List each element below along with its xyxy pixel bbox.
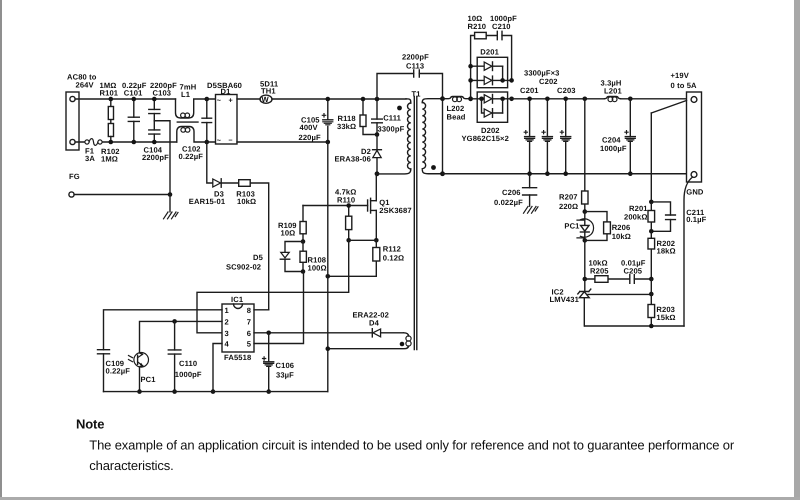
- node C101 top: [132, 97, 137, 102]
- svg-text:The example of an application: The example of an application circuit is…: [89, 438, 735, 453]
- output connector J2: [671, 71, 704, 197]
- svg-text:C201: C201: [520, 86, 539, 95]
- svg-text:FG: FG: [69, 172, 80, 181]
- svg-text:2200pF: 2200pF: [402, 53, 429, 62]
- node C204 bottom: [628, 171, 633, 176]
- node divider / C205: [649, 277, 654, 282]
- svg-text:C103: C103: [153, 89, 172, 98]
- capacitor C105: [299, 99, 333, 142]
- wire +19V output rail: [508, 98, 687, 100]
- svg-text:10kΩ: 10kΩ: [612, 232, 631, 241]
- wire C113 right leg down to secondary ground: [442, 99, 444, 174]
- svg-text:Bead: Bead: [447, 113, 466, 122]
- optocoupler PC1 transistor side: [129, 353, 157, 392]
- node C110 top: [172, 319, 177, 324]
- node R101 top: [109, 97, 114, 102]
- node pin6 / C106: [266, 331, 271, 336]
- wire bridge + output to TH1: [237, 98, 260, 100]
- svg-text:10Ω: 10Ω: [281, 229, 296, 238]
- svg-text:100Ω: 100Ω: [308, 264, 327, 273]
- node C203 top: [563, 97, 568, 102]
- svg-text:2SK3687: 2SK3687: [379, 206, 412, 215]
- node D202 cathode: [500, 97, 505, 102]
- wire PC1 to R205 node to IC2: [584, 240, 586, 291]
- node snubber bottom: [509, 78, 514, 83]
- node R201 bottom: [649, 229, 654, 234]
- node D201 cathode: [500, 78, 505, 83]
- svg-text:Note: Note: [76, 417, 104, 432]
- svg-text:1MΩ: 1MΩ: [101, 155, 118, 164]
- node R108 bottom: [301, 269, 306, 274]
- resistor R110: [335, 188, 356, 241]
- transistor Q1 2SK3687: [368, 174, 412, 241]
- capacitor C106: [263, 333, 295, 392]
- resistor R103: [236, 180, 268, 310]
- svg-text:YG862C15×2: YG862C15×2: [462, 134, 509, 143]
- resistor R118: [337, 99, 377, 135]
- node C106 bottom: [266, 389, 271, 394]
- svg-text:characteristics.: characteristics.: [89, 458, 173, 473]
- capacitor C113: [377, 53, 443, 99]
- wire bridge - output rail: [237, 141, 328, 143]
- svg-text:33µF: 33µF: [276, 371, 294, 380]
- wire AC top rail: [75, 98, 175, 100]
- svg-text:R101: R101: [100, 89, 119, 98]
- node C110 bottom: [172, 389, 177, 394]
- svg-text:0 to 5A: 0 to 5A: [671, 81, 698, 90]
- node C103 top: [152, 97, 157, 102]
- wire GND terminal to feedback return: [684, 178, 692, 327]
- resistor R108: [300, 242, 327, 273]
- wire pin6 to D4: [254, 332, 372, 334]
- diode D4 ERA22-02: [353, 311, 404, 337]
- optocoupler PC1 LED side: [564, 212, 593, 241]
- shunt regulator IC2 LMV431: [550, 288, 652, 327]
- svg-text:4: 4: [225, 340, 230, 349]
- diode D5 SC902-02: [226, 242, 303, 272]
- wire C102 to bridge: [207, 99, 216, 142]
- svg-text:2: 2: [225, 317, 229, 326]
- node FG junction: [168, 192, 173, 197]
- svg-text:C106: C106: [276, 361, 295, 370]
- svg-text:C203: C203: [557, 86, 576, 95]
- svg-text:PC1: PC1: [564, 222, 580, 231]
- bridge rectifier D1 D5SBA60: [207, 81, 242, 145]
- node R110 bottom: [346, 238, 351, 243]
- inductor L1 common-mode choke: [176, 83, 207, 143]
- capacitor C204: [600, 99, 635, 174]
- svg-text:0.22µF: 0.22µF: [106, 367, 131, 376]
- svg-text:+: +: [229, 95, 233, 104]
- resistor R207: [559, 99, 588, 212]
- svg-text:C205: C205: [624, 267, 643, 276]
- resistor R102: [101, 124, 120, 164]
- node D201 anode 1: [468, 64, 473, 69]
- svg-text:200kΩ: 200kΩ: [624, 213, 648, 222]
- diode D2 ERA38-06: [335, 135, 382, 174]
- svg-text:~: ~: [217, 96, 221, 105]
- capacitor C102: [179, 99, 212, 161]
- wire secondary ground rail: [443, 173, 687, 175]
- wire feedback bottom rail: [585, 325, 684, 327]
- svg-text:R112: R112: [383, 245, 401, 254]
- svg-text:0.22µF: 0.22µF: [179, 152, 204, 161]
- node primary ground at R112 return: [326, 274, 331, 279]
- node secondary ground: [440, 171, 445, 176]
- node Q1 source: [374, 238, 379, 243]
- Note text: [76, 417, 735, 474]
- svg-text:–: –: [229, 135, 233, 144]
- svg-text:1: 1: [225, 306, 230, 315]
- diode pair D202 YG862C15x2: [462, 92, 509, 143]
- node rail at snubber: [509, 97, 514, 102]
- node T1 secondary polarity dot: [431, 165, 436, 170]
- wire pin1 to C109: [104, 310, 223, 350]
- node C102 top: [205, 97, 210, 102]
- node C201 bottom: [527, 171, 532, 176]
- node R110 top: [346, 203, 351, 208]
- svg-text:W: W: [262, 95, 270, 104]
- svg-text:GND: GND: [686, 188, 704, 197]
- node R102 bottom: [109, 140, 114, 145]
- node C111 top: [375, 97, 380, 102]
- node R118 top: [361, 97, 366, 102]
- node primary bottom: [375, 171, 380, 176]
- AC input connector J1: [66, 73, 97, 151]
- svg-text:0.022µF: 0.022µF: [494, 198, 523, 207]
- svg-text:8: 8: [247, 306, 251, 315]
- node PC1 cathode: [583, 238, 588, 243]
- diode D3 EAR15-01: [189, 142, 239, 206]
- capacitor C211: [651, 202, 706, 231]
- svg-text:264V: 264V: [76, 81, 95, 90]
- ground chassis below C206: [524, 206, 539, 213]
- svg-text:FA5518: FA5518: [224, 353, 251, 362]
- resistor R201: [624, 202, 655, 231]
- wire gate line: [303, 205, 368, 207]
- wire Y-cap midpoint to FG: [154, 121, 170, 195]
- node R205 left: [583, 277, 588, 282]
- node C111 bottom / R118 junction: [375, 132, 380, 137]
- svg-text:15kΩ: 15kΩ: [656, 313, 675, 322]
- capacitor C205: [621, 259, 651, 284]
- svg-text:18kΩ: 18kΩ: [657, 247, 676, 256]
- svg-text:220µF: 220µF: [299, 133, 322, 142]
- resistor R101: [100, 81, 119, 124]
- diode pair D201: [471, 48, 512, 88]
- svg-text:ERA38-06: ERA38-06: [335, 155, 371, 164]
- svg-text:R110: R110: [337, 196, 355, 205]
- resistor R109: [278, 206, 306, 242]
- FG terminal: [69, 172, 170, 197]
- svg-text:0.12Ω: 0.12Ω: [383, 254, 404, 263]
- node R203 bottom: [649, 324, 654, 329]
- node C101 bottom: [132, 140, 137, 145]
- inductor L201: [601, 79, 623, 102]
- svg-text:7: 7: [247, 317, 251, 326]
- node T1 primary polarity dot: [397, 106, 402, 111]
- svg-text:1000pF: 1000pF: [175, 370, 202, 379]
- svg-text:SC902-02: SC902-02: [226, 263, 261, 272]
- transformer T1: [376, 90, 442, 350]
- svg-text:IC1: IC1: [231, 295, 244, 304]
- node C102 bottom: [205, 140, 210, 145]
- node divider / IC2 ref: [649, 292, 654, 297]
- node PC1 emitter: [137, 389, 142, 394]
- capacitor C206: [494, 174, 537, 207]
- svg-text:TH1: TH1: [261, 87, 276, 96]
- wire current sense to pin3: [197, 240, 349, 332]
- wire primary ground vertical: [327, 142, 329, 392]
- wire IC ground rail: [104, 391, 328, 393]
- node aux polarity dot: [400, 342, 405, 347]
- node R201 top: [649, 200, 654, 205]
- capacitor C103: [149, 81, 177, 121]
- svg-text:C206: C206: [502, 188, 521, 197]
- svg-text:D1: D1: [221, 87, 232, 96]
- svg-text:33kΩ: 33kΩ: [337, 122, 356, 131]
- svg-text:3A: 3A: [85, 154, 95, 163]
- svg-text:5: 5: [247, 340, 252, 349]
- node secondary top: [440, 96, 445, 101]
- wire pin5 to gate drive node: [254, 272, 304, 344]
- node L202 right: [468, 96, 473, 101]
- transformer T1 aux winding: [328, 333, 411, 349]
- svg-text:~: ~: [217, 136, 221, 145]
- svg-text:0.1µF: 0.1µF: [686, 215, 706, 224]
- node C105 top: [326, 97, 331, 102]
- node C104 bottom: [152, 140, 157, 145]
- wire pin2 to PC1: [140, 321, 223, 353]
- node D201 anode 2: [468, 78, 473, 83]
- node C201 top: [527, 97, 532, 102]
- IC1 FA5518: [222, 295, 254, 362]
- svg-text:10kΩ: 10kΩ: [237, 197, 256, 206]
- wire remote sense diagonal: [651, 101, 686, 114]
- resistor R206: [585, 212, 631, 241]
- svg-text:PC1: PC1: [141, 375, 157, 384]
- svg-text:D5: D5: [253, 253, 264, 262]
- svg-text:3300pF: 3300pF: [378, 125, 405, 134]
- svg-text:R207: R207: [559, 193, 578, 202]
- node R109 bottom: [301, 239, 306, 244]
- wire TH1 to transformer rail: [272, 98, 406, 100]
- snubber capacitor C210: [490, 14, 517, 80]
- node C202 bottom: [545, 171, 550, 176]
- svg-text:400V: 400V: [300, 123, 319, 132]
- svg-text:2200pF: 2200pF: [142, 153, 169, 162]
- snubber R210: [468, 14, 498, 99]
- wire pin4 to ground rail: [213, 344, 222, 392]
- capacitor C109: [98, 350, 131, 392]
- thermistor TH1 5D11: [260, 80, 279, 104]
- wire AC bottom rail left: [75, 141, 177, 143]
- node R207 top: [583, 97, 588, 102]
- node pin4 ground: [211, 389, 216, 394]
- svg-text:D201: D201: [480, 48, 499, 57]
- svg-text:L1: L1: [181, 90, 191, 99]
- capacitor C101: [122, 81, 147, 142]
- capacitor C104: [142, 121, 169, 162]
- wire feedback divider vertical: [650, 113, 652, 202]
- svg-text:6: 6: [247, 329, 251, 338]
- svg-text:R206: R206: [612, 223, 631, 232]
- capacitor C202: [524, 69, 560, 174]
- svg-text:R210: R210: [468, 22, 487, 31]
- svg-text:1000µF: 1000µF: [600, 144, 627, 153]
- svg-text:C111: C111: [383, 114, 401, 123]
- node C203 bottom: [563, 171, 568, 176]
- node L201 right / C204 top: [628, 97, 633, 102]
- svg-text:C202: C202: [539, 77, 558, 86]
- wire pin8 to VCC riser: [254, 309, 269, 311]
- svg-text:EAR15-01: EAR15-01: [189, 197, 226, 206]
- capacitor C203: [557, 86, 576, 174]
- svg-text:+19V: +19V: [671, 71, 690, 80]
- svg-text:LMV431: LMV431: [550, 295, 580, 304]
- svg-text:C110: C110: [179, 359, 197, 368]
- inductor L202 bead: [443, 97, 471, 122]
- resistor R203: [648, 279, 676, 326]
- svg-text:3: 3: [225, 329, 229, 338]
- svg-text:R205: R205: [590, 267, 609, 276]
- capacitor C111: [372, 99, 405, 135]
- wire Q1 source to R110: [349, 239, 377, 241]
- node C105 bottom: [326, 140, 331, 145]
- svg-text:C101: C101: [124, 89, 143, 98]
- svg-text:C113: C113: [406, 62, 424, 71]
- svg-text:220Ω: 220Ω: [559, 202, 578, 211]
- resistor R112: [373, 240, 404, 276]
- node D202 anode branch: [479, 97, 484, 102]
- svg-text:L201: L201: [604, 87, 622, 96]
- fuse F1: [85, 139, 102, 163]
- resistor R205: [585, 259, 630, 283]
- node R207 bottom: [583, 209, 588, 214]
- svg-text:C210: C210: [492, 22, 511, 31]
- node C202 top: [545, 97, 550, 102]
- node aux return: [326, 346, 331, 351]
- capacitor C201: [520, 86, 539, 174]
- wire R112 bottom to primary ground: [328, 275, 377, 277]
- resistor R202: [648, 231, 676, 279]
- ground FG: [164, 195, 179, 219]
- capacitor C110: [168, 321, 202, 391]
- svg-text:D4: D4: [369, 319, 380, 328]
